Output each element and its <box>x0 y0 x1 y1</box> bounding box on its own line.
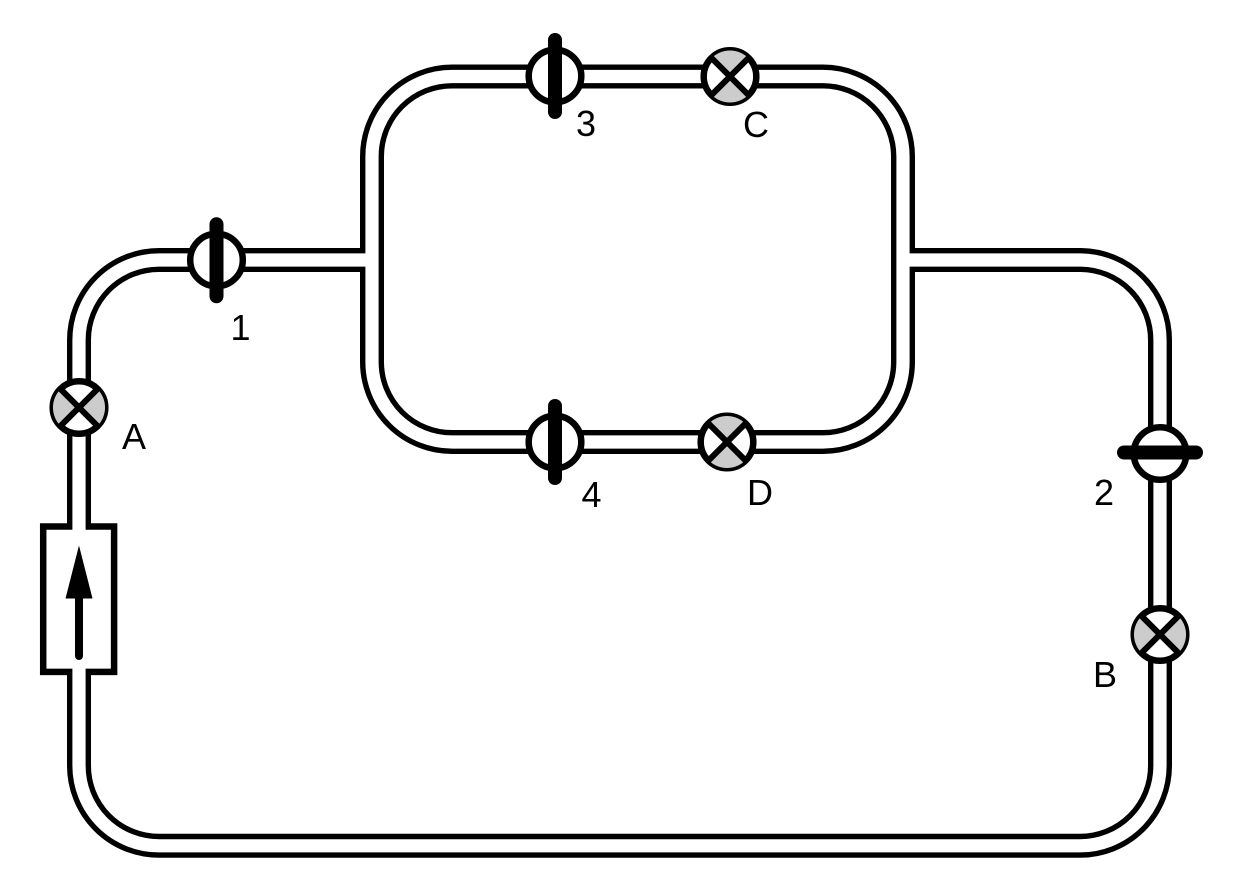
wire main loop (white core) <box>79 260 1160 846</box>
svg-text:B: B <box>1093 654 1117 695</box>
lamp C <box>704 50 757 103</box>
svg-text:2: 2 <box>1094 472 1114 513</box>
switch 2 <box>1124 427 1196 480</box>
svg-text:3: 3 <box>576 103 596 144</box>
lamp B <box>1134 608 1187 661</box>
wire parallel loop (black outline) <box>372 77 903 443</box>
lamp A <box>53 381 106 434</box>
source box <box>43 527 114 672</box>
wire parallel loop (white core) <box>372 77 903 443</box>
svg-text:A: A <box>122 416 146 457</box>
lamp D <box>701 416 754 469</box>
svg-text:C: C <box>743 104 769 145</box>
source arrow <box>66 546 93 657</box>
svg-text:1: 1 <box>230 307 250 348</box>
svg-text:4: 4 <box>581 474 601 515</box>
wire main loop (black outline) <box>79 260 1160 846</box>
switch 1 <box>190 224 243 296</box>
switch 3 <box>529 40 582 112</box>
switch 4 <box>529 406 582 478</box>
svg-text:D: D <box>747 472 773 513</box>
